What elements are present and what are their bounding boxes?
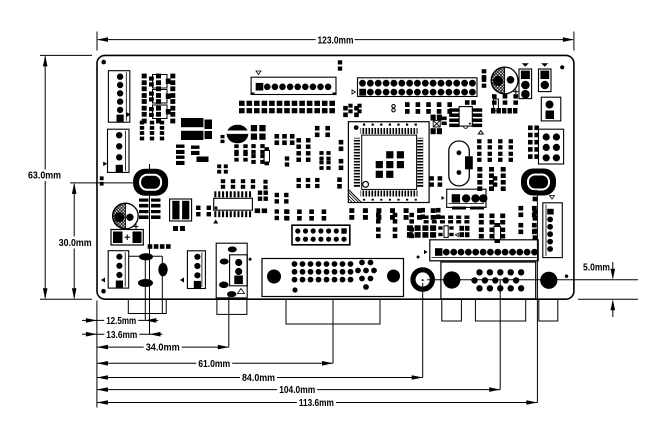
svg-text:12.5mm: 12.5mm [106,316,136,327]
dimension 113.6mm [97,397,538,410]
SMD quad K30 [493,176,498,180]
connector CN1 (6-pin) [108,71,129,123]
dimension 61.0mm [97,357,333,370]
transformer T1 [181,118,203,140]
fiducial hole top-right [560,65,564,69]
SOIC-8 IC U3 [449,100,483,134]
header CN8 (2x14) [352,78,477,97]
transistors Q1-Q3 [149,75,171,119]
solder dot [417,256,420,259]
extension line 104.0mm [499,280,501,390]
SMD cluster mid-left B [251,144,255,148]
power inductor L2 [521,169,556,196]
svg-text:34.0mm: 34.0mm [146,343,180,354]
connector CN2 (4-pin) [108,129,130,172]
dimension 123.0mm (board width) [97,32,574,51]
inductor L3 [170,199,192,221]
dimension 30.0mm (inductor center height) [59,183,133,299]
PCB board outline [97,55,574,299]
dimension 104.0mm [97,384,500,397]
svg-text:113.6mm: 113.6mm [299,398,334,409]
SMD pads left edge [100,176,104,180]
connector CN15 (2x3) [539,129,564,164]
SMD cluster K23 [196,206,200,210]
header CN9 (2x7) [292,225,350,245]
resistor R23 with pads [438,226,458,238]
LVDS connector CN5 [424,240,538,261]
extension line 12.5mm [144,256,146,320]
SMD cluster left of QFP col [339,140,344,145]
svg-text:30.0mm: 30.0mm [59,238,92,249]
fiducial hole right [565,275,568,278]
SMD block K15g [407,225,413,231]
SMD cluster right mid 2 [479,214,484,219]
mounting hole circle right [540,272,557,289]
SMD cluster right mid [420,208,425,213]
AV jack tab below board [217,299,247,314]
SMD cluster above U2 [221,179,225,183]
test points TP1 TP2 [392,105,395,112]
SMD cluster right of U2 [255,191,268,214]
crystal Y1 [449,141,473,186]
connector CN11 (4-pin) [442,189,488,209]
capacitor C20 (radial) [227,125,249,144]
extension line 13.6mm [149,164,151,334]
SMD pads board top [338,60,342,64]
SMD cluster above QFP [343,106,348,111]
fiducial hole bottom-left [101,289,106,294]
capacitor bank C25-C27 [176,145,209,166]
SMD cluster below C20 [234,144,238,148]
resistor R21 [494,223,501,243]
SMD pads K15h [459,226,464,231]
svg-text:123.0mm: 123.0mm [318,36,354,47]
SMD cluster right K15b [518,206,523,211]
extension line x=96.9 [96,301,98,408]
svg-text:61.0mm: 61.0mm [198,359,230,370]
dimension 5.0mm (connector center height) [427,262,638,317]
dimension 34.0mm [97,341,229,354]
audio jack J1 pads [129,253,168,313]
SMD pads pair [221,135,225,138]
pad array 2x5 [528,126,539,159]
SMD pads K7b [285,156,289,160]
power inductor L1 [133,169,168,196]
SMD pads E2 left [482,69,487,73]
DVI connector tab below board [286,299,380,324]
SMD quad right of header [429,176,434,180]
SMD cluster right of header [405,102,410,107]
SMD cluster below QFP [349,208,354,213]
DVI connector J3 [262,259,404,297]
SMD cluster mid C [296,138,301,142]
dimension 13.6mm [82,328,163,341]
SSOP IC U2 [213,191,252,223]
connector CN14 (2-pin) [541,97,561,121]
extension line 61.0mm [332,299,334,363]
SMD cluster top-left [142,74,147,79]
electrolytic capacitor E1 [113,203,139,229]
QFP IC U1 [348,122,429,203]
SMD cluster K21b [337,177,342,182]
RCA ring jack J4 [413,270,432,289]
SMD cluster caps top right [477,139,481,143]
SMD row R10-R13 [148,244,171,249]
SMD cluster left edge mid [217,164,221,168]
SMD cluster K18 [533,190,538,195]
extension line 113.6mm [536,182,538,403]
SMD pads K24 [173,226,185,231]
SMD cluster K13 [297,178,301,182]
connector CN12 (3-pin) [519,63,532,98]
jack tab below board [442,299,462,321]
connector CN3 (4-pin) [101,251,129,288]
connector CN4 (4-pin) [180,251,205,289]
AV jack J2 [216,243,247,298]
SMD cluster left of QFP [315,126,320,131]
SMD pads K11b [263,180,267,184]
resistor R24 [264,147,270,165]
svg-text:63.0mm: 63.0mm [28,171,61,182]
svg-text:104.0mm: 104.0mm [279,385,315,396]
connector CN6 (6-pin right edge) [543,196,563,258]
connector CN13 (2-pin) [539,63,552,91]
audio jack tab below board [128,299,166,313]
SMD row below CN7 [239,101,245,106]
SMD cluster below QFP 2 [376,213,381,217]
SMD cluster below Q3 [140,121,144,125]
capacitors beside T1 [205,120,213,140]
SMD cluster mid D [319,151,323,155]
SMD cluster K16 [492,94,497,98]
solder dot CN4 right [249,258,252,261]
electrolytic capacitor E2 [491,67,518,94]
fiducial hole top-left [101,60,106,65]
resistor R22 [494,99,499,111]
VGA connector J5 [441,262,536,299]
SMD cluster left of U3 [431,115,447,135]
SMD pads near CN7 right [348,104,352,108]
VGA tab below board [475,299,525,321]
svg-text:84.0mm: 84.0mm [242,373,275,384]
SMD cluster K11 [275,193,279,197]
SMD cluster mid-left A [275,134,280,139]
power jack tab below board [539,299,558,321]
svg-text:13.6mm: 13.6mm [106,330,137,341]
SMD cluster right K15a [477,167,482,172]
dimension 84.0mm [97,372,423,385]
tantalum capacitor C10 [111,230,143,246]
SMD row K15e [424,216,429,219]
capacitor bank C21-C24 [139,199,161,220]
SMD row above CN9 [285,209,290,214]
dimension 63.0mm (board height) [28,55,92,299]
connector CN7 (10-pin) [251,71,336,95]
extension line 84.0mm [422,283,424,378]
resistor array RN1 [491,108,517,114]
svg-text:5.0mm: 5.0mm [583,262,610,273]
SMD quad [251,125,266,140]
dimension 12.5mm [82,314,158,327]
extension line 34.0mm [228,292,230,347]
